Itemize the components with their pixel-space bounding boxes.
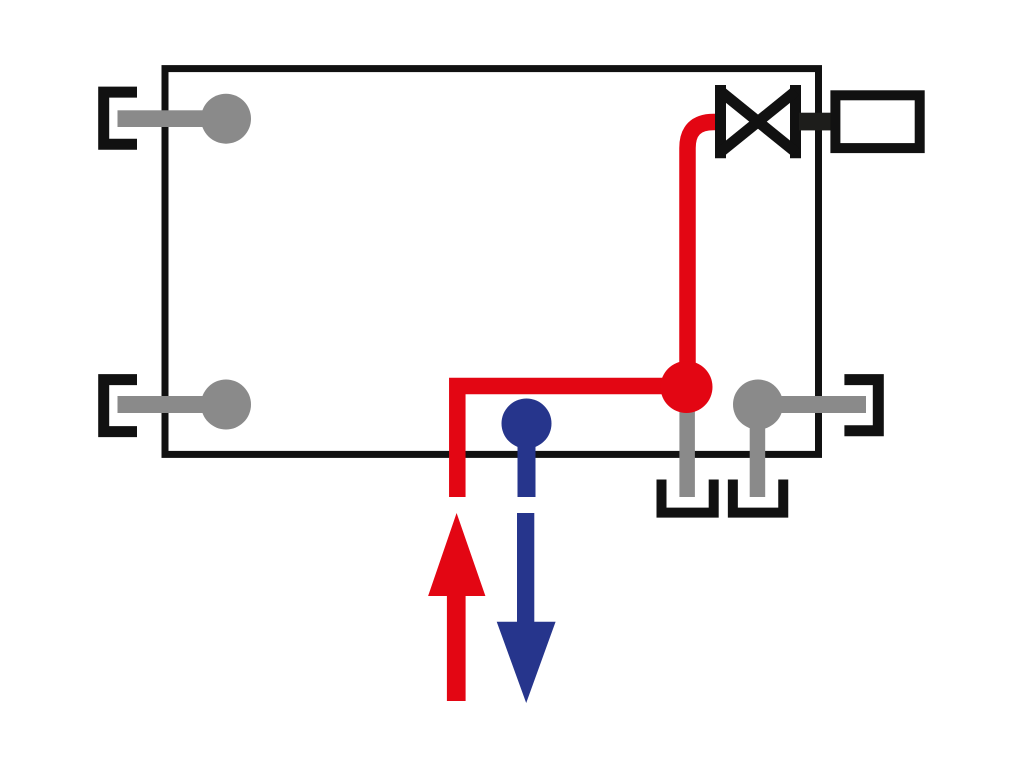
pipe bottom-right gray — [758, 396, 866, 413]
pipe top-left gray — [118, 110, 227, 127]
plug circle bottom-right — [733, 380, 783, 430]
blue return plug circle — [502, 399, 552, 449]
valve body black bowtie — [721, 85, 796, 158]
radiator body outline — [165, 69, 819, 455]
U-bracket right — [733, 480, 783, 513]
valve spindle dark bar — [799, 113, 832, 131]
plug circle top-left — [201, 94, 251, 144]
U-bracket left — [662, 480, 714, 513]
plug circle bottom-left — [201, 380, 251, 430]
gray stem under junction — [679, 387, 695, 497]
red junction circle — [661, 361, 713, 413]
blue stem dash — [518, 424, 536, 498]
blue return arrow down — [497, 513, 556, 703]
bracket top-left — [104, 92, 137, 144]
gray stem under right plug — [750, 405, 766, 498]
red supply pipe — [457, 122, 716, 497]
red flow arrow up — [428, 513, 485, 701]
thermostat head rectangle — [835, 95, 919, 148]
pipe bottom-left gray — [118, 396, 227, 413]
bracket bottom-right — [844, 380, 878, 431]
bracket bottom-left — [104, 380, 137, 432]
